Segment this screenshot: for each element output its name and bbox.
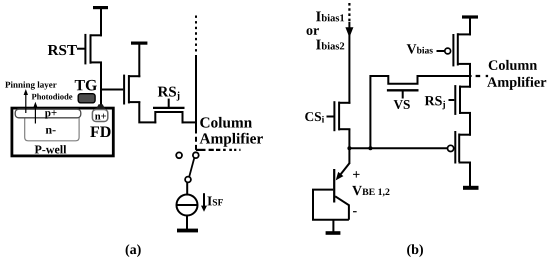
label Ibias1 or Ibias2 bbox=[316, 11, 344, 21]
wire VDD to RST drain bbox=[100, 9, 102, 37]
label Pinning layer bbox=[5, 81, 56, 89]
label TG bbox=[75, 80, 97, 91]
n+ floating diffusion region bbox=[92, 110, 107, 122]
arrow pinning layer bbox=[25, 93, 27, 114]
transistor RST bbox=[77, 34, 102, 65]
label p+ bbox=[45, 110, 57, 119]
current source ISF bbox=[177, 195, 198, 216]
transistor RSj (row select, horizontal) bbox=[153, 99, 185, 124]
transistor M-b (bubble gate follower) bbox=[455, 131, 471, 164]
VDD bar (RST drain supply) bbox=[93, 6, 108, 9]
label P-well bbox=[35, 145, 67, 153]
transistor RSj (b) bbox=[449, 85, 472, 115]
wire node down to BJT emitter bbox=[348, 148, 350, 164]
arrow photodiode bbox=[34, 105, 36, 124]
switch blade bbox=[189, 158, 194, 177]
wire SF source to RSj bbox=[139, 102, 156, 123]
label RST bbox=[48, 45, 77, 55]
label RSj (b) bbox=[425, 96, 445, 109]
ground (b left) bbox=[326, 231, 341, 235]
label CSi bbox=[305, 112, 324, 122]
ground (b right) bbox=[463, 186, 479, 190]
label ISF bbox=[207, 197, 222, 206]
wire RSj source to lower transistor bbox=[469, 113, 471, 136]
label Photodiode bbox=[32, 94, 73, 100]
gate bubble M-b bbox=[448, 145, 454, 151]
wire current source to ground bbox=[186, 216, 188, 230]
node junction dot (VS branch) bbox=[368, 146, 372, 150]
transistor M-SF (source follower) bbox=[101, 75, 140, 105]
label FD bbox=[90, 127, 110, 138]
wire VDD to Vbias drain bbox=[469, 18, 471, 36]
wire RST source down to FD bbox=[100, 62, 102, 105]
wire top rail with VS capacitor dip bbox=[370, 76, 471, 84]
wire CSi source to node bbox=[348, 129, 350, 149]
p+ pinning layer region bbox=[15, 109, 81, 118]
wire column node to RSj drain bbox=[469, 75, 471, 88]
column bus solid segment bbox=[195, 55, 197, 129]
dashed stub right of Amplifier bbox=[196, 149, 206, 151]
transistor Vbias (PMOS) bbox=[453, 33, 471, 66]
wire RSj to column line bbox=[182, 121, 198, 123]
label (a) bbox=[126, 244, 141, 257]
column bus dotted upper segment bbox=[195, 16, 197, 54]
Q1 base-collector tie loop bbox=[313, 190, 349, 220]
wire Vbias source to column node bbox=[469, 64, 471, 77]
gate bubble Vbias bbox=[445, 48, 451, 54]
capacitor VS gate plate bbox=[387, 89, 419, 91]
capacitor VS gate lead bbox=[402, 90, 404, 98]
ground (a) bbox=[177, 229, 198, 233]
transfer gate TG bbox=[78, 94, 95, 103]
node junction dot (CSi source) bbox=[347, 146, 351, 150]
transistor Q1 (PNP diode-connected) emitter bbox=[340, 163, 350, 176]
wire BJT to ground bbox=[332, 220, 334, 232]
Q1 collector bbox=[335, 196, 349, 219]
switch pole contact bbox=[185, 177, 191, 183]
switch throw contact (column) bbox=[193, 152, 199, 158]
wire node to gate bubble (VBE node rail) bbox=[349, 147, 447, 149]
label RSj bbox=[158, 87, 180, 101]
Q1 base bar bbox=[333, 169, 335, 203]
gate lead Vbias bbox=[437, 50, 445, 52]
bias current dotted feed bbox=[348, 3, 350, 22]
VDD bar (b) bbox=[462, 15, 478, 18]
label minus bbox=[353, 211, 357, 212]
VDD bar (SF drain supply) bbox=[131, 42, 147, 45]
switch throw contact (open, left) bbox=[176, 152, 182, 158]
label Vbias bbox=[407, 44, 433, 53]
wire switch to current source bbox=[186, 182, 188, 195]
label Column Amplifier (a) bbox=[200, 117, 252, 128]
n- photodiode region bbox=[25, 117, 79, 141]
wire VS branch up bbox=[369, 75, 371, 148]
label n+ bbox=[95, 114, 106, 120]
wire VDD to SF drain bbox=[138, 44, 140, 77]
arrow ISF bbox=[203, 193, 205, 206]
label Column Amplifier (b) bbox=[489, 60, 537, 70]
transistor CSi bbox=[327, 101, 351, 131]
label plus bbox=[353, 171, 360, 178]
label (b) bbox=[407, 244, 423, 257]
bias current arrow bbox=[348, 22, 350, 104]
wire M-b source to ground bbox=[469, 163, 471, 187]
pixel cross-section: P-well box bbox=[12, 108, 113, 156]
label n- bbox=[46, 128, 56, 134]
label VBE 1,2 bbox=[352, 186, 389, 197]
column node dashes (b) bbox=[476, 75, 489, 77]
column bus dashed lower segment bbox=[195, 129, 197, 152]
contact pad FD bbox=[96, 104, 105, 109]
label VS bbox=[394, 100, 410, 109]
